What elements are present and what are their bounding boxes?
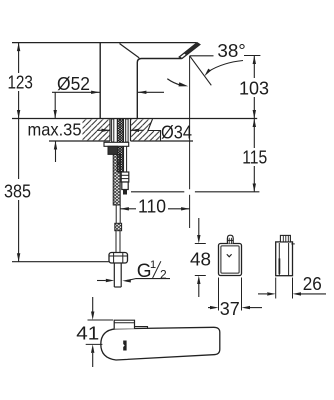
cable plug connector: [121, 172, 129, 182]
side view clip dark bar: [279, 258, 281, 274]
counter bottom line (left of hole): [49, 140, 110, 142]
vertical extension line from spout tip down to cable plug level: [189, 56, 191, 189]
threaded shank through hole: [117, 119, 123, 172]
svg-text:115: 115: [242, 147, 267, 167]
svg-text:110: 110: [138, 196, 166, 216]
G1/2 shelf + leader arrow: [136, 278, 171, 280]
38° horizontal reference line from spout tip: [190, 55, 214, 57]
svg-text:103: 103: [239, 78, 269, 98]
385 bottom extension line: [12, 261, 109, 263]
svg-text:48: 48: [190, 250, 211, 270]
G1/2 left arrow: [97, 280, 106, 282]
dim 103 vertical line: [253, 56, 255, 79]
dim 115 vertical line: [253, 119, 255, 149]
svg-text:Ø34: Ø34: [161, 122, 192, 142]
hose tube section: [115, 205, 117, 223]
dim 48 ticks: [195, 243, 206, 245]
hex nut at hose end: [109, 253, 128, 264]
dim 37 arrows: [208, 307, 210, 309]
max35 bottom arrow pointing up at slab underside: [55, 141, 57, 162]
svg-text:385: 385: [4, 181, 31, 201]
dim 26 arrows: [258, 293, 267, 295]
braided supply hose: [113, 154, 120, 205]
svg-text:2: 2: [160, 267, 167, 281]
faucet top edge + left extension line: [12, 42, 197, 44]
right stud / cable sleeve in hole: [126, 119, 128, 142]
cable gland stem on top of box: [227, 235, 233, 243]
pill-shaped housing side view (tilted): [101, 327, 220, 360]
horseshoe washer plate under counter: [104, 142, 129, 146]
svg-text:1: 1: [150, 259, 156, 271]
Ø52 left-pointing arrow at body right edge: [138, 91, 164, 93]
tube to nut: [115, 231, 117, 253]
dim 41 top extension line: [88, 319, 114, 321]
faucet body outline: [100, 43, 182, 119]
svg-text:38°: 38°: [217, 41, 246, 61]
counter hole left edge: [109, 119, 111, 142]
svg-text:max.35: max.35: [28, 120, 82, 140]
small dark clip detail inside housing: [123, 341, 126, 351]
housing top tab/clip: [114, 320, 134, 329]
dim 48 arrows: [198, 218, 200, 235]
housing clip ledge: [135, 327, 148, 329]
hose fitting block: [115, 223, 122, 230]
sensor cable below counter: [122, 146, 124, 172]
mounting nut block under plate: [108, 146, 118, 154]
38° dimension arc with arrow: [209, 61, 243, 72]
slab break step outline: [148, 119, 161, 141]
control box front view outline: [219, 244, 242, 276]
counter top line: [12, 118, 257, 120]
counter bottom line + Ø34 text shelf (right of hole): [131, 140, 194, 142]
hatching left of hole: [83, 119, 111, 140]
control box side view outline: [276, 242, 293, 276]
side view right tick: [291, 243, 295, 245]
counter hole right edge: [130, 119, 132, 142]
svg-text:123: 123: [7, 72, 33, 92]
dim 41 arrows: [92, 297, 94, 312]
svg-text:26: 26: [303, 274, 322, 294]
dim 110 line + arrows: [120, 208, 136, 210]
Ø34 left arrow: [97, 129, 110, 131]
svg-text:Ø52: Ø52: [57, 74, 90, 94]
Ø52 shelf line + right arrow to body left edge: [52, 91, 100, 93]
plug-level extension line (115 bottom / 110 ref): [131, 191, 184, 193]
sensor/stream indicator curved arrow: [167, 79, 180, 85]
dim 26 extension lines: [275, 278, 277, 299]
dim 123 / 385 vertical line: [18, 43, 20, 73]
Ø52 leader drop to counter / max35 top arrow: [54, 92, 56, 118]
aerator plate at spout tip (38 deg face): [179, 43, 200, 59]
Ø34 right arrow: [131, 129, 144, 131]
faucet top-face fold line (diagonal): [120, 44, 140, 58]
dim 37 extension lines: [218, 278, 220, 311]
side view top tab: [280, 235, 290, 242]
left mounting stud in hole: [112, 119, 114, 142]
clip mark inside box: [227, 254, 232, 257]
svg-text:41: 41: [76, 324, 99, 344]
dim 41 bottom extension line: [86, 343, 103, 345]
hatching right of hole, stepped break edge: [131, 119, 161, 140]
svg-text:37: 37: [220, 299, 240, 319]
38° slanted ray: [190, 56, 212, 85]
G1/2 supply nipple pipe: [113, 263, 115, 287]
aerator plate dark upper half: [184, 42, 200, 55]
